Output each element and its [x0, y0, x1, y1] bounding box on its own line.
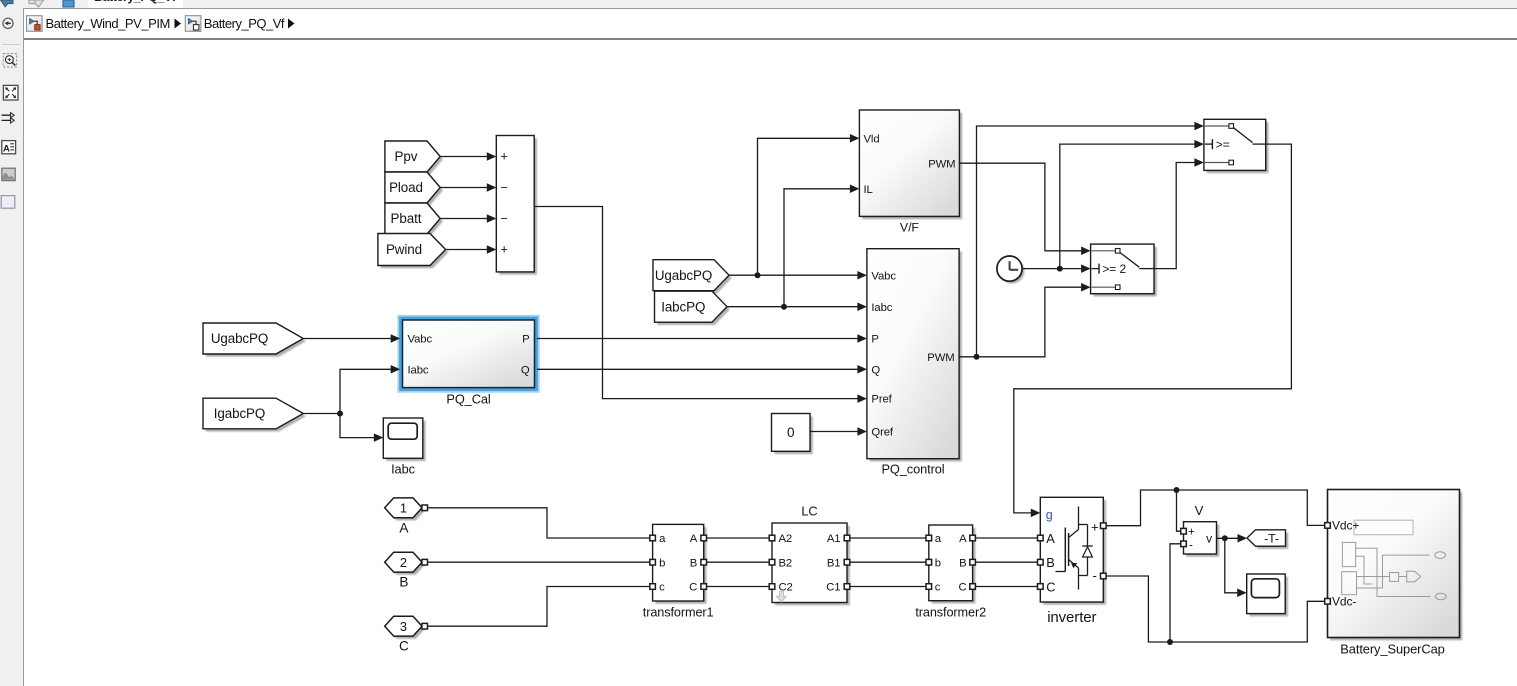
svg-text:-T-: -T- [1264, 532, 1279, 546]
svg-text:+: + [501, 243, 508, 257]
svg-text:Battery_PQ_Vf: Battery_PQ_Vf [204, 16, 285, 31]
svg-text:Iabc: Iabc [871, 302, 892, 314]
svg-text:3: 3 [400, 619, 407, 634]
svg-text:PWM: PWM [927, 352, 954, 364]
svg-text:Q: Q [521, 364, 530, 376]
svg-text:Vdc-: Vdc- [1332, 595, 1356, 609]
svg-text:Pload: Pload [389, 180, 423, 195]
svg-text:Vld: Vld [864, 133, 880, 145]
svg-text:Iabc: Iabc [391, 461, 415, 476]
svg-text:Iabc: Iabc [408, 364, 429, 376]
svg-text:A: A [399, 520, 409, 535]
svg-text:Q: Q [871, 364, 880, 376]
svg-text:C1: C1 [826, 582, 840, 594]
svg-text:B: B [959, 557, 966, 569]
svg-text:B1: B1 [827, 557, 841, 569]
svg-text:V: V [1195, 503, 1204, 518]
svg-text:c: c [935, 582, 941, 594]
svg-text:PWM: PWM [928, 158, 955, 170]
svg-text:PQ_Cal: PQ_Cal [446, 392, 490, 407]
svg-text:2: 2 [400, 555, 407, 570]
svg-text:Pref: Pref [871, 394, 892, 406]
svg-text:A1: A1 [827, 533, 841, 545]
svg-text:A2: A2 [779, 533, 793, 545]
svg-text:IabcPQ: IabcPQ [661, 299, 705, 314]
svg-text:B2: B2 [779, 557, 793, 569]
svg-text:V/F: V/F [900, 221, 920, 235]
svg-text:0: 0 [787, 425, 794, 440]
svg-text:C: C [399, 639, 409, 654]
svg-text:Battery_Wind_PV_PIM: Battery_Wind_PV_PIM [46, 16, 170, 31]
svg-text:transformer2: transformer2 [915, 606, 986, 620]
svg-text:C: C [1046, 579, 1055, 594]
svg-text:A: A [690, 533, 698, 545]
svg-text:B: B [399, 575, 408, 590]
svg-text:B: B [1046, 555, 1054, 570]
svg-text:IgabcPQ: IgabcPQ [214, 406, 265, 421]
svg-text:+: + [1188, 527, 1195, 539]
svg-text:Battery_SuperCap: Battery_SuperCap [1340, 642, 1444, 657]
svg-text:Pbatt: Pbatt [391, 211, 422, 226]
svg-text:LC: LC [801, 504, 817, 519]
svg-text:Pwind: Pwind [386, 242, 422, 257]
svg-text:A: A [3, 143, 10, 154]
svg-text:a: a [659, 533, 666, 545]
svg-text:inverter: inverter [1047, 609, 1096, 626]
svg-text:>=: >= [1216, 137, 1230, 151]
svg-text:g: g [1046, 508, 1053, 522]
svg-text:+: + [1091, 519, 1099, 534]
svg-text:C: C [959, 582, 967, 594]
svg-text:Ppv: Ppv [395, 149, 418, 164]
svg-text:C: C [689, 582, 697, 594]
svg-text:c: c [659, 582, 665, 594]
svg-text:P: P [522, 334, 529, 346]
svg-text:b: b [659, 557, 665, 569]
svg-text:A: A [959, 533, 967, 545]
svg-text:+: + [501, 150, 508, 164]
svg-text:Vabc: Vabc [408, 334, 433, 346]
svg-text:a: a [935, 533, 942, 545]
svg-text:transformer1: transformer1 [643, 606, 714, 620]
svg-text:A: A [1046, 531, 1055, 546]
svg-text:Vabc: Vabc [871, 270, 896, 282]
svg-text:−: − [501, 212, 508, 226]
svg-text:v: v [1206, 532, 1212, 546]
svg-text:Vdc+: Vdc+ [1332, 519, 1359, 533]
svg-text:b: b [935, 557, 941, 569]
svg-text:UgabcPQ: UgabcPQ [655, 268, 712, 283]
svg-text:PQ_control: PQ_control [881, 462, 944, 477]
svg-text:-: - [1189, 540, 1193, 552]
svg-text:-: - [1093, 568, 1097, 583]
svg-text:>= 2: >= 2 [1102, 262, 1126, 276]
svg-text:IL: IL [864, 184, 873, 196]
svg-text:Qref: Qref [871, 427, 894, 439]
svg-text:B: B [690, 557, 697, 569]
svg-text:P: P [871, 334, 878, 346]
svg-text:UgabcPQ: UgabcPQ [211, 331, 268, 346]
svg-text:1: 1 [400, 500, 407, 515]
svg-text:−: − [501, 181, 508, 195]
